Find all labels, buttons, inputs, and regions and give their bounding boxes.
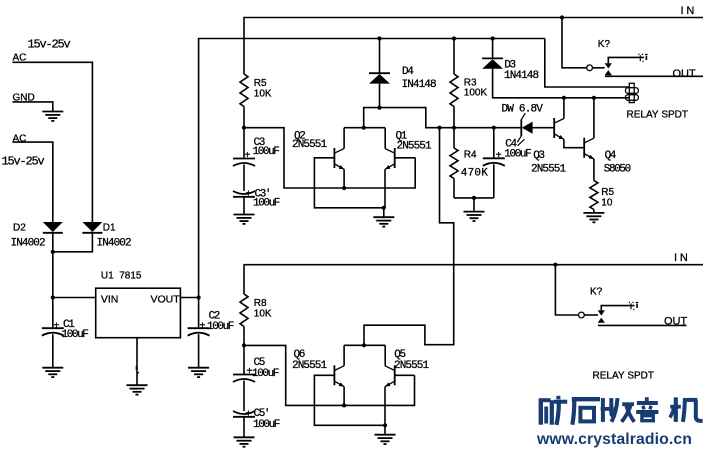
junction collector rail [362,126,366,130]
wire collector rail (bottom) [344,344,385,346]
ground (U1) [127,385,148,394]
svg-text:D4: D4 [402,66,414,78]
svg-text:15v-25v: 15v-25v [28,37,71,51]
junction collector rail (bottom) [362,343,366,347]
diode D1 [82,222,102,233]
wire IN rail (top channel) [244,18,703,75]
label C3 [254,137,265,149]
wire collector node to D4 bypass [364,108,521,128]
wire AC bottom to D2 [13,142,53,222]
value 2N5551 (Q5) [394,360,430,372]
transistor Q3 [554,118,564,139]
capacitor C1 [42,298,64,368]
wire Q6 emitter [343,387,345,406]
wire Q2 collector [343,128,345,149]
junction D4 anode [377,106,381,110]
svg-text:VOUT: VOUT [151,294,181,306]
junction R3 bottom [452,126,456,130]
label Q4 [605,150,617,162]
wire R5 to node A [243,107,245,128]
value 2N5551 (Q2) [292,139,328,151]
wire +15V riser [199,39,545,298]
junction Q2-base/Q1-emitter ground node [382,206,386,210]
svg-text:DW 6.8V: DW 6.8V [502,103,544,115]
svg-text:100K: 100K [464,88,488,99]
relay NO contact arrow (top) [605,70,612,75]
label R5 (10) [601,187,614,198]
ground (AC input) [42,112,63,121]
label C5' [254,408,270,420]
value 100uF (C5') [253,419,280,431]
ground (R4/C4) [464,198,485,221]
resistor R5 (10) [590,181,598,210]
junction IN rail to relay (bottom) [553,263,557,267]
capacitor C5' [233,411,255,437]
value IN4002 (D2) [11,238,46,250]
ground (pair bottom) [375,425,396,444]
wire +15V to relay coil [545,39,630,88]
logo url www.crystalradio.cn [536,431,692,448]
relay coil K? (top) [625,83,638,102]
svg-text:2N5551: 2N5551 [292,139,328,151]
wire Q2 base [314,158,383,208]
wire D1 cathode to junction [53,233,93,252]
zener diode DW [517,113,532,142]
wire Q3 collector [563,98,565,119]
label DW 6.8V [502,103,544,115]
junction R4/C4 ground node [472,196,476,200]
svg-text:+: + [246,409,252,420]
svg-text:100uF: 100uF [504,149,531,161]
wire Q1 emitter [384,169,386,208]
wire C3 to C3prime [243,165,245,192]
transistor Q5 [385,365,395,386]
wire Q4 collector [593,98,595,138]
value 2N5551 (Q1) [397,140,433,152]
svg-text:+: + [54,321,60,332]
label D3 [504,59,515,71]
pin VIN [101,294,119,306]
node AC (top) [13,53,27,64]
value S8050 (Q4) [604,164,631,176]
wire R3 leads [453,39,455,128]
wire R4/C4 bottom [454,197,494,199]
svg-text:R5: R5 [601,187,614,198]
transistor Q4 [584,138,594,159]
wire zener to Q3 base [533,127,555,129]
relay common terminal (top) [587,65,593,71]
label C4 [505,139,524,151]
label C3 plus [245,150,251,161]
svg-text:www.crystalradio.cn: www.crystalradio.cn [536,431,692,448]
value 100uF (C1) [62,329,89,341]
relay NC contact arrow (top) [605,63,612,68]
svg-text:10: 10 [601,197,613,208]
ground (C1) [42,368,63,377]
wire U1 ground pin [136,338,138,386]
label C3' plus [246,189,252,200]
label C4 plus [496,150,502,161]
wire common line to contacts (bottom) [584,314,598,316]
wire D3 leads [493,39,630,98]
wire node A to emitter rail [244,128,415,188]
wire GND stub [13,102,53,112]
junction Q4 collector [592,96,596,100]
svg-text:U1 7815: U1 7815 [101,270,142,281]
svg-text:RELAY SPDT: RELAY SPDT [593,371,655,382]
label D2 [13,223,26,234]
junction Q2 emitter [342,186,346,190]
label D4 [402,66,414,78]
wire Q1 collector [384,128,386,149]
wire Q4 emitter to R5 [593,159,595,181]
node OUT (bottom) [664,315,688,327]
resistor R3 (100K) [450,74,458,107]
wire R8 to node B [243,327,245,346]
wire OUT (bottom) [598,324,687,326]
wire collector rail [344,127,385,129]
node B junction [242,343,246,347]
svg-text:+: + [496,150,502,161]
junction Q6-base/Q5-emitter ground node [383,423,387,427]
transistor Q1 [385,148,395,169]
diode D4 [369,73,390,83]
svg-text:Q3: Q3 [533,150,544,162]
label Q5 [394,349,405,361]
svg-text:+: + [200,321,206,332]
svg-text:+: + [245,150,251,161]
wire Q6 collector [343,345,345,366]
wire R4 leads [453,128,455,198]
wire relay NC throw (top) [608,57,644,63]
svg-text:Q4: Q4 [605,150,617,162]
ground (pair top) [373,208,394,227]
capacitor C4 [483,128,505,198]
label C3' [255,188,271,200]
node AC (bottom) [13,133,27,144]
label K? (bottom) [590,286,603,297]
wire D2 cathode down [52,233,54,298]
wire Q2 emitter [343,169,345,188]
junction Q3 collector [562,96,566,100]
node OUT (top) [673,68,697,80]
label U1 7815 [101,270,142,281]
svg-text:2N5551: 2N5551 [397,140,433,152]
value 2N5551 (Q6) [292,360,328,372]
relay common terminal (bottom) [579,312,585,318]
value 10 (R5) [601,197,613,208]
wire Q1 base [395,157,416,159]
wire relay common (top) [562,18,587,68]
label R8 [254,298,267,309]
svg-text:OUT: OUT [673,68,697,80]
relay NC end mark (bottom) [629,302,638,309]
wire common line to contacts (top) [593,67,605,69]
label Q3 [533,150,544,162]
wire Q3 emitter to Q4 base [564,139,584,148]
svg-text:Q5: Q5 [394,349,405,361]
capacitor C5 [233,345,255,382]
wire bottom pair to top collector node [364,128,454,346]
junction C4 top [492,126,496,130]
wire Q6 base [314,375,385,425]
junction VIN node [51,295,55,299]
capacitor C3' [233,191,255,215]
ground (R5) [583,210,604,223]
svg-text:2N5551: 2N5551 [394,360,430,372]
value 10K (R8) [254,308,272,319]
wire C5 to C5prime [243,381,245,412]
junction bypass top [437,126,441,130]
label R4 [464,150,477,161]
svg-text:IN4002: IN4002 [11,238,46,250]
svg-text:1N4148: 1N4148 [504,70,539,82]
value 100uF (C3') [253,198,280,210]
wire Q5 base [395,374,415,376]
ground (C5') [234,437,255,446]
junction VOUT node [197,295,201,299]
svg-text:S8050: S8050 [604,164,631,176]
svg-text:2N5551: 2N5551 [292,360,328,372]
label C2 plus [200,321,206,332]
value 2N5551 (Q3) [531,164,567,176]
svg-text:D2: D2 [13,223,26,234]
svg-text:2N5551: 2N5551 [531,164,567,176]
pin VOUT [151,294,181,306]
value IN4148 (D4) [402,79,437,91]
wire VOUT to C2 node [180,297,198,299]
capacitor C3 [233,128,255,166]
junction R3 top [452,36,456,40]
svg-text:100uF: 100uF [62,329,89,341]
resistor R4 (470K) [450,148,458,179]
label D1 [103,223,116,234]
label RELAY SPDT (top) [627,110,689,121]
svg-text:10K: 10K [254,88,272,99]
svg-text:470K: 470K [461,167,488,179]
wire IN rail (bottom channel) [244,265,703,294]
value 100uF (C5) [252,368,279,380]
label C2 [209,310,220,322]
svg-text:100uF: 100uF [253,146,280,158]
svg-text:100uF: 100uF [252,368,279,380]
svg-text:R5: R5 [254,78,267,89]
relay NC end mark (top) [638,54,647,61]
svg-text:D1: D1 [103,223,116,234]
svg-text:K?: K? [590,286,603,297]
wire relay NC throw (bottom) [601,306,634,311]
ground (C2) [188,368,209,377]
wire AC top to D1 [13,62,93,222]
svg-text:RELAY SPDT: RELAY SPDT [627,110,689,121]
value 100uF (C3) [253,146,280,158]
label R5 [254,78,267,89]
junction D3 top [491,36,495,40]
svg-text:+: + [246,189,252,200]
svg-text:100uF: 100uF [207,321,234,333]
ground (C3') [234,215,255,224]
resistor R5 (10K) [240,74,248,107]
op-amp U1 7815 regulator box [96,288,181,338]
junction D4 top [377,36,381,40]
node A junction [242,126,246,130]
label K? (top) [598,39,611,50]
label C5 plus [247,366,253,377]
svg-text:15v-25v: 15v-25v [2,154,45,168]
svg-text:R8: R8 [254,298,267,309]
svg-text:100uF: 100uF [253,419,280,431]
resistor R8 (10K) [240,294,248,327]
svg-text:IN4148: IN4148 [402,79,437,91]
label RELAY SPDT (bottom) [593,371,655,382]
svg-text:VIN: VIN [101,294,119,306]
wire D4 leads [379,39,381,108]
wire relay common (bottom) [555,265,578,315]
wire Q5 emitter [384,387,386,426]
label Q1 [396,130,408,142]
svg-text:IN: IN [681,5,698,17]
label Q6 [294,349,305,361]
value 100uF (C4) [504,149,531,161]
wire node B to emitter rail (bottom) [244,345,415,405]
diode D2 [43,222,63,233]
wire to VIN [53,297,96,299]
value 1N4148 (D3) [504,70,539,82]
label C1 plus [54,321,60,332]
label 15v-25v (bottom AC input) [2,154,45,168]
transistor Q6 [334,365,344,386]
junction Q6 emitter [342,403,346,407]
label C5 [254,357,265,369]
value 10K (R5) [254,88,272,99]
svg-text:10K: 10K [254,308,272,319]
junction IN rail to relay [560,15,564,19]
svg-text:Q6: Q6 [294,349,305,361]
label R3 [464,78,477,89]
node GND [13,93,35,104]
junction D1/D2 [51,250,55,254]
capacitor C2 [188,298,210,368]
value IN4002 (D1) [97,238,132,250]
relay NC contact arrow (bottom) [598,310,605,315]
label 15v-25v (top AC input) [28,37,71,51]
logo 矿石收音机 [539,396,703,425]
svg-text:OUT: OUT [664,315,688,327]
value 100uF (C2) [207,321,234,333]
wire OUT (top) [605,75,703,77]
value 100K (R3) [464,88,488,99]
svg-text:R4: R4 [464,150,477,161]
wire Q5 collector [384,345,386,366]
label C1 [63,319,75,331]
node IN (bottom) [674,252,691,264]
relay NO contact arrow (bottom) [598,318,605,323]
svg-text:IN: IN [674,252,691,264]
node IN (top) [681,5,698,17]
svg-text:IN4002: IN4002 [97,238,132,250]
svg-text:K?: K? [598,39,611,50]
diode D3 [482,58,503,68]
svg-text:100uF: 100uF [253,198,280,210]
label C5' plus [246,409,252,420]
transistor Q2 [334,148,344,169]
value 470K (R4) [461,167,488,179]
label Q2 [294,130,305,142]
pin 1 mark (U1) [136,367,140,375]
